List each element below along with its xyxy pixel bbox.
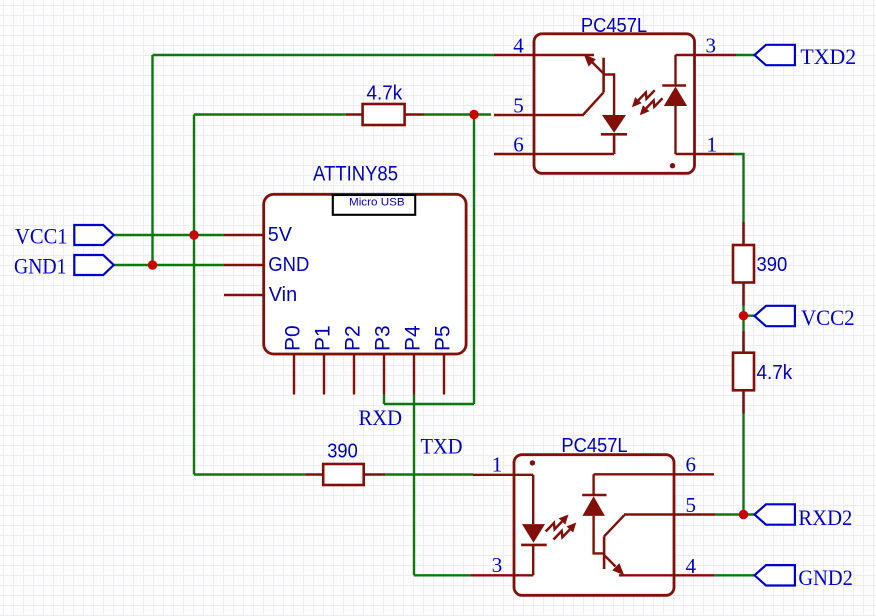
svg-text:Micro USB: Micro USB [349,197,405,209]
svg-text:1: 1 [492,453,503,477]
opto U1 LED cathode bar [662,84,686,87]
svg-text:TXD: TXD [421,434,463,459]
svg-text:TXD2: TXD2 [800,44,856,69]
port RXD2 [755,504,795,524]
svg-text:4.7k: 4.7k [367,82,404,104]
junction VCC1/5V [189,230,198,239]
svg-text:390: 390 [327,441,358,463]
wire VCC1 net to R-390 bottom [194,473,305,475]
opto U1 pin 1 line [676,153,735,155]
svg-text:5: 5 [513,94,524,118]
svg-text:3: 3 [706,34,717,58]
resistor 4.7k right [733,331,754,414]
wire TXD to opto2 pin3 [414,574,471,576]
opto U1 pin 3 line [676,54,737,56]
wire TXD vertical (P4 to opto2 pin3) [413,395,415,576]
svg-text:P4: P4 [402,325,425,351]
opto U1 phototransistor base lead to pin5 [584,92,604,115]
wire vertical VCC1 net [193,115,195,475]
opto U1 phototransistor base bar [602,58,605,93]
wire RXD vertical [473,115,475,405]
opto U2 LED triangle [522,524,545,543]
opto U1 pin 5 line [494,114,584,116]
port VCC2 [755,306,795,326]
opto U1 collector diode bar [601,134,627,154]
opto U2 light arrow 1 [546,522,562,532]
junction RXD pullup [469,110,478,119]
svg-text:390: 390 [757,254,788,276]
svg-text:GND2: GND2 [798,565,852,590]
port TXD2 [755,45,795,65]
ATTINY85 pin P4 stub [413,354,415,395]
svg-text:5V: 5V [268,224,293,246]
svg-text:VCC1: VCC1 [15,223,68,248]
opto U1 LED triangle [664,87,687,107]
wire VCC1 net to R-4.7k top [194,113,346,115]
wire top (GND1 net to opto1 pin4) [153,54,495,56]
ATTINY85 pin GND stub [224,264,264,266]
svg-text:GND: GND [268,254,309,276]
opto U1 light arrow 2 [646,98,662,108]
opto U2 PC457L body [514,455,674,596]
wire RXD horizontal [384,403,474,405]
opto U2 LED anode line [532,475,534,524]
svg-text:P2: P2 [342,325,365,351]
junction GND1 [148,260,157,269]
opto U1 pin 6 line [494,153,614,155]
svg-text:1: 1 [707,133,718,157]
ATTINY85 pin 5V stub [224,234,264,236]
resistor 390 bottom [305,464,385,485]
port GND2 [755,565,795,585]
opto U2 pin1 marker dot [530,460,535,465]
wire VCC2 port stub [744,315,755,317]
IC ATTINY85 body [264,194,466,354]
svg-text:4: 4 [686,554,697,578]
opto U1 pin1 marker dot [670,163,675,168]
port VCC1 [74,225,113,245]
opto U2 light arrow 2 [554,530,570,540]
svg-text:PC457L: PC457L [581,14,647,37]
wire opto2 pin4 to GND2 port [714,574,755,576]
wire opto1 pin1 down to R-390 right [734,154,744,222]
svg-text:3: 3 [492,553,503,577]
resistor 390 right [733,222,754,306]
opto U1 PC457L body [534,34,695,174]
wire GND1 to GND pin [114,264,224,266]
opto U2 base lead to pin5 [604,515,624,537]
wire R-4.7k to opto1 pin5 [424,113,491,115]
svg-text:P3: P3 [372,325,395,351]
opto U2 photodiode bar [582,494,606,497]
opto U2 pin 3 line [471,574,533,576]
opto U2 collector link [594,516,605,554]
svg-text:RXD2: RXD2 [798,505,852,530]
opto U2 pin 4 line [619,574,714,576]
opto U2 pin 1 line [473,474,533,476]
svg-text:6: 6 [513,133,524,157]
wire R-390 to opto2 pin1 [385,473,473,475]
opto U2 pin 6 line [594,473,714,475]
opto U1 pin 4 line [494,54,594,56]
svg-text:P5: P5 [432,325,455,351]
svg-text:4.7k: 4.7k [757,362,794,384]
resistor 4.7k top [346,104,424,125]
wire P3 tail [383,395,385,405]
svg-text:P0: P0 [282,325,305,351]
svg-text:5: 5 [686,493,697,517]
opto U2 transistor base bar [603,536,606,569]
ATTINY85 Micro USB box [333,195,415,215]
opto U1 collector diode triangle [602,115,626,133]
opto U2 pin 5 line [624,513,715,515]
wire vertical left (GND1 net) [151,55,153,265]
wire opto1 pin3 to TXD2 port [736,54,755,56]
wire opto2 pin5 to RXD2 port [715,513,754,515]
junction RXD2 [739,510,748,519]
svg-text:PC457L: PC457L [561,434,627,457]
svg-text:VCC2: VCC2 [801,305,855,330]
opto U2 LED to pin3 line [532,545,534,575]
svg-text:Vin: Vin [269,284,297,306]
opto U2 emitter arrow [604,555,615,567]
opto U2 photodiode triangle [582,496,605,516]
svg-text:GND1: GND1 [14,253,67,278]
opto U1 LED to pin1 line [674,106,676,154]
junction VCC2 [739,311,748,320]
opto U1 LED anode line [674,55,676,86]
svg-text:RXD: RXD [359,405,403,430]
ATTINY85 pin P3 stub [383,354,385,395]
wire VCC1 to 5V pin [114,234,224,236]
ATTINY85 pin P5 stub [443,354,445,395]
svg-text:ATTINY85: ATTINY85 [313,163,398,186]
port GND1 [74,255,113,275]
opto U1 phototransistor emitter arrow [591,61,604,74]
svg-text:P1: P1 [312,325,335,351]
ATTINY85 pin P0 stub [293,354,295,395]
ATTINY85 pin P1 stub [323,354,325,395]
svg-text:6: 6 [686,453,697,477]
ATTINY85 pin P2 stub [353,354,355,395]
ATTINY85 pin Vin stub [224,294,264,296]
wire R-4.7k right down to RXD2 [742,414,744,515]
opto U2 LED cathode bar [521,544,547,547]
opto U1 light arrow 1 [638,90,654,100]
opto U1 collector link [604,75,615,116]
opto U2 photodiode link [592,474,594,495]
wire VCC2 node [742,306,744,331]
svg-text:4: 4 [513,34,524,58]
